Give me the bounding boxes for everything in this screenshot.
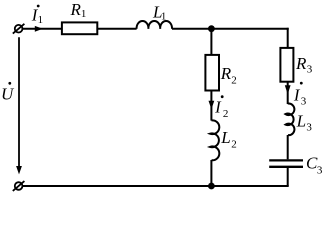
- wire L2 to bottom node: [210, 160, 212, 186]
- wire R3 to L3: [287, 82, 289, 104]
- label I3: [293, 82, 307, 108]
- svg-text:L: L: [296, 111, 306, 130]
- svg-text:3: 3: [306, 122, 312, 134]
- svg-text:R: R: [295, 54, 307, 73]
- label R3: [295, 54, 313, 76]
- wire R1 to L1: [97, 28, 136, 30]
- inductor L3: [286, 104, 295, 136]
- terminal top-left: [13, 24, 25, 34]
- wire C3 to bottom wire: [287, 167, 289, 186]
- svg-text:U: U: [1, 84, 15, 103]
- svg-text:2: 2: [231, 138, 237, 150]
- wire R2 to L2: [210, 91, 212, 121]
- terminal bottom-left: [13, 181, 25, 191]
- current arrow I1: [35, 26, 43, 32]
- svg-text:3: 3: [317, 165, 323, 177]
- wire L3 to C3: [287, 135, 289, 159]
- label U: [1, 82, 15, 104]
- wire L1 to top-right corner and down: [172, 28, 288, 48]
- capacitor C3: [269, 160, 303, 166]
- inductor L2: [210, 120, 219, 160]
- resistor R1: [62, 22, 97, 34]
- svg-text:1: 1: [38, 14, 44, 26]
- resistor R3: [280, 48, 293, 82]
- bottom wire: [23, 185, 289, 187]
- current arrow I3: [285, 85, 291, 94]
- node A (top junction): [208, 25, 215, 32]
- node B (bottom junction): [208, 183, 215, 190]
- svg-text:R: R: [70, 0, 82, 19]
- label R2: [220, 64, 237, 87]
- svg-text:1: 1: [161, 10, 167, 22]
- wire node to R2: [210, 29, 212, 55]
- label L3: [296, 111, 313, 133]
- svg-text:1: 1: [81, 8, 87, 20]
- label C3: [306, 153, 323, 176]
- inductor L1: [137, 21, 172, 29]
- current arrow I2: [209, 101, 215, 110]
- svg-text:L: L: [220, 128, 230, 147]
- resistor R2: [205, 55, 219, 91]
- svg-text:3: 3: [307, 64, 313, 76]
- svg-text:2: 2: [231, 74, 237, 86]
- label R1: [70, 0, 87, 20]
- svg-text:R: R: [220, 64, 232, 83]
- label L1: [152, 2, 166, 22]
- voltage arrow U: [16, 37, 22, 174]
- svg-text:3: 3: [301, 95, 307, 107]
- label L2: [220, 128, 236, 150]
- svg-text:2: 2: [223, 108, 229, 120]
- wire top-left segment: [23, 28, 62, 30]
- label I2: [214, 95, 228, 120]
- label I1: [31, 5, 43, 26]
